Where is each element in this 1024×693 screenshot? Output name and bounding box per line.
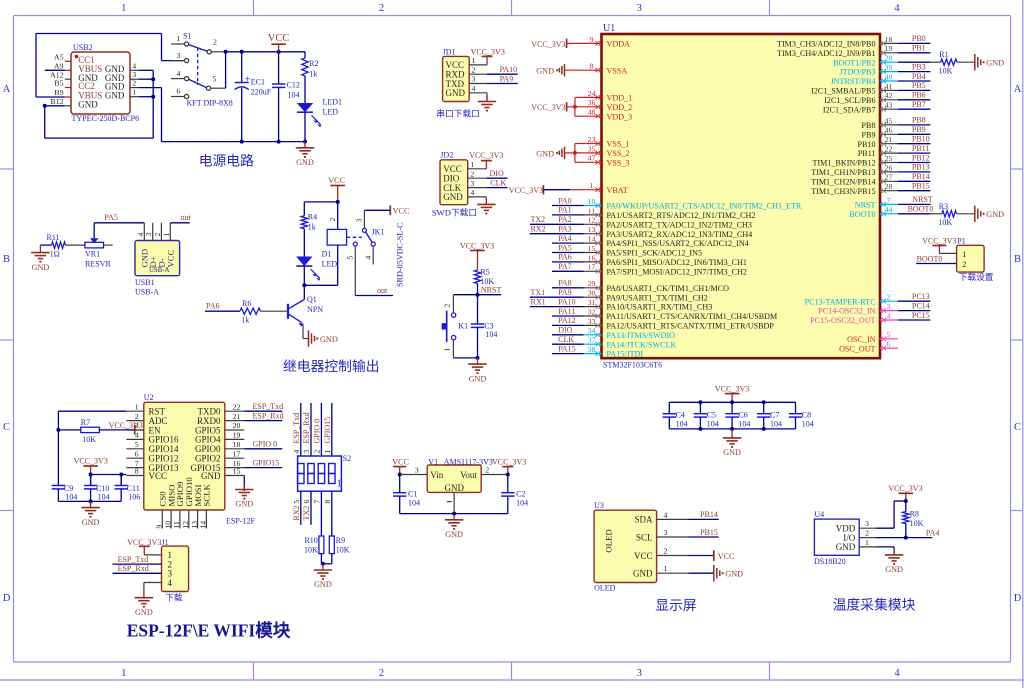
svg-text:LED: LED xyxy=(322,260,338,269)
svg-text:23: 23 xyxy=(588,135,596,144)
svg-text:C10: C10 xyxy=(96,484,109,493)
svg-text:GND: GND xyxy=(135,608,153,617)
svg-text:A: A xyxy=(1014,84,1022,95)
svg-text:VCC_3V3: VCC_3V3 xyxy=(469,151,503,160)
svg-text:15: 15 xyxy=(588,244,596,253)
svg-text:BOOT0: BOOT0 xyxy=(849,210,875,219)
svg-text:GND: GND xyxy=(725,570,743,579)
svg-text:27: 27 xyxy=(885,173,893,182)
svg-text:LED: LED xyxy=(323,108,339,117)
svg-text:TX2: TX2 xyxy=(531,215,546,224)
svg-text:37: 37 xyxy=(588,336,596,345)
svg-text:B: B xyxy=(3,254,10,265)
svg-text:Vin: Vin xyxy=(430,470,443,480)
svg-text:GND: GND xyxy=(314,580,332,589)
svg-text:GND: GND xyxy=(986,59,1004,68)
svg-text:38: 38 xyxy=(588,345,596,354)
svg-text:TIM3_CH3/ADC12_IN8/PB0: TIM3_CH3/ADC12_IN8/PB0 xyxy=(777,40,875,49)
svg-text:R2: R2 xyxy=(309,59,318,68)
svg-text:B5: B5 xyxy=(54,79,63,88)
svg-text:1: 1 xyxy=(443,348,452,352)
svg-text:C: C xyxy=(3,422,10,433)
svg-text:10K: 10K xyxy=(938,218,952,227)
svg-text:4: 4 xyxy=(177,69,181,78)
svg-text:VCC_3V3: VCC_3V3 xyxy=(74,457,108,466)
svg-text:D: D xyxy=(1014,593,1022,604)
svg-text:PA15: PA15 xyxy=(558,344,576,353)
svg-text:PC14-OSC32_IN: PC14-OSC32_IN xyxy=(818,307,875,316)
svg-text:10: 10 xyxy=(163,521,172,529)
svg-text:R11: R11 xyxy=(47,233,60,242)
svg-text:VDD_3: VDD_3 xyxy=(607,112,633,121)
svg-text:1: 1 xyxy=(865,538,869,547)
svg-text:15: 15 xyxy=(233,467,241,476)
svg-text:7: 7 xyxy=(887,196,891,205)
svg-text:GND: GND xyxy=(445,530,463,539)
svg-text:ESP_Txd: ESP_Txd xyxy=(118,555,149,564)
svg-text:VSS_2: VSS_2 xyxy=(607,149,630,158)
svg-text:PB14: PB14 xyxy=(912,172,930,181)
svg-text:3: 3 xyxy=(637,3,642,14)
svg-text:B12: B12 xyxy=(51,97,64,106)
svg-text:47: 47 xyxy=(588,154,596,163)
svg-text:2: 2 xyxy=(132,79,136,88)
svg-text:104: 104 xyxy=(676,420,688,429)
svg-text:USB2: USB2 xyxy=(73,43,93,52)
svg-text:R8: R8 xyxy=(910,510,919,519)
svg-text:2: 2 xyxy=(135,412,139,421)
svg-text:PA8/USART1_CK/TIM1_CH1/MCO: PA8/USART1_CK/TIM1_CH1/MCO xyxy=(607,284,730,293)
svg-text:SCLK: SCLK xyxy=(202,483,212,506)
svg-text:TIM1_CH2N/PB14: TIM1_CH2N/PB14 xyxy=(811,177,875,186)
svg-text:VCC: VCC xyxy=(328,176,345,185)
svg-text:DIO: DIO xyxy=(558,326,572,335)
svg-text:PB0: PB0 xyxy=(912,34,926,43)
svg-text:2: 2 xyxy=(485,466,489,475)
svg-text:39: 39 xyxy=(885,63,893,72)
svg-text:4: 4 xyxy=(472,84,476,93)
svg-text:ESP_Rxd: ESP_Rxd xyxy=(302,412,311,443)
svg-text:6: 6 xyxy=(887,340,891,349)
svg-text:PA7/SPI1_MOSI/ADC12_IN7/TIM3_C: PA7/SPI1_MOSI/ADC12_IN7/TIM3_CH2 xyxy=(607,267,747,276)
svg-text:PA8: PA8 xyxy=(558,279,572,288)
svg-text:1k: 1k xyxy=(308,223,316,232)
svg-text:13: 13 xyxy=(588,225,596,234)
svg-text:34: 34 xyxy=(588,326,596,335)
svg-text:电源电路: 电源电路 xyxy=(199,154,254,169)
svg-text:PB4: PB4 xyxy=(912,72,926,81)
svg-text:PA3: PA3 xyxy=(558,225,572,234)
svg-text:D: D xyxy=(3,593,11,604)
svg-text:VDD_2: VDD_2 xyxy=(607,103,633,112)
svg-text:OLED: OLED xyxy=(594,584,616,593)
svg-text:6: 6 xyxy=(177,87,181,96)
svg-text:PA4: PA4 xyxy=(926,528,940,537)
svg-text:1: 1 xyxy=(323,450,332,454)
svg-text:9: 9 xyxy=(155,525,164,529)
svg-text:B: B xyxy=(1014,254,1021,265)
svg-text:TIM1_CH1N/PB13: TIM1_CH1N/PB13 xyxy=(811,168,875,177)
svg-text:S1: S1 xyxy=(183,32,191,41)
svg-text:PA9: PA9 xyxy=(558,288,572,297)
svg-text:GND: GND xyxy=(82,518,100,527)
svg-text:2: 2 xyxy=(312,450,321,454)
svg-text:C1: C1 xyxy=(408,490,417,499)
svg-text:PA0: PA0 xyxy=(558,196,572,205)
svg-text:PA3/USART2_RX/ADC12_IN3/TIM2_C: PA3/USART2_RX/ADC12_IN3/TIM2_CH4 xyxy=(607,230,753,239)
svg-text:14: 14 xyxy=(199,521,208,529)
svg-text:20: 20 xyxy=(885,54,893,63)
svg-text:2: 2 xyxy=(379,3,384,14)
svg-text:GND: GND xyxy=(235,500,253,509)
svg-text:C12: C12 xyxy=(287,81,300,90)
svg-text:VCC: VCC xyxy=(393,207,410,216)
svg-text:显示屏: 显示屏 xyxy=(655,598,697,613)
svg-text:USB1: USB1 xyxy=(135,278,155,287)
svg-text:4: 4 xyxy=(132,61,136,70)
svg-text:5: 5 xyxy=(135,440,139,449)
svg-text:PA10: PA10 xyxy=(500,65,517,74)
svg-text:48: 48 xyxy=(588,108,596,117)
svg-text:GND: GND xyxy=(445,483,465,493)
svg-text:2: 2 xyxy=(887,293,891,302)
svg-text:10: 10 xyxy=(588,197,596,206)
svg-text:Q1: Q1 xyxy=(307,295,317,304)
svg-text:ESP-12F\E WIFI模块: ESP-12F\E WIFI模块 xyxy=(127,621,291,641)
svg-text:22: 22 xyxy=(885,145,893,154)
svg-text:20: 20 xyxy=(233,421,241,430)
svg-text:VCC_3V3: VCC_3V3 xyxy=(531,40,565,49)
svg-text:1: 1 xyxy=(337,479,342,490)
svg-text:PA2: PA2 xyxy=(558,215,572,224)
svg-text:RX1: RX1 xyxy=(531,297,546,306)
svg-text:PB8: PB8 xyxy=(912,116,926,125)
svg-text:SWD下载口: SWD下载口 xyxy=(432,207,477,218)
svg-text:PA9/USART1_TX/TIM1_CH2: PA9/USART1_TX/TIM1_CH2 xyxy=(607,293,708,302)
svg-text:32: 32 xyxy=(588,307,596,316)
svg-text:1k: 1k xyxy=(309,70,317,79)
svg-text:BOOT0: BOOT0 xyxy=(908,205,934,214)
svg-text:46: 46 xyxy=(885,126,893,135)
svg-text:PA6: PA6 xyxy=(206,302,220,311)
svg-text:GND: GND xyxy=(536,67,554,76)
svg-text:PB7: PB7 xyxy=(912,100,926,109)
svg-text:BOOT1/PB2: BOOT1/PB2 xyxy=(833,58,875,67)
svg-text:GND: GND xyxy=(836,542,856,552)
svg-text:SRD-05VDC-SL-C: SRD-05VDC-SL-C xyxy=(396,222,405,287)
svg-text:12: 12 xyxy=(588,216,596,225)
svg-text:NPN: NPN xyxy=(307,305,323,314)
svg-text:PA6: PA6 xyxy=(558,253,572,262)
svg-text:1: 1 xyxy=(121,3,126,14)
svg-text:PC15: PC15 xyxy=(912,311,930,320)
svg-text:C11: C11 xyxy=(127,484,140,493)
svg-text:OSC_OUT: OSC_OUT xyxy=(839,344,875,353)
svg-text:1: 1 xyxy=(962,249,966,259)
svg-text:1: 1 xyxy=(472,56,476,65)
svg-text:14: 14 xyxy=(588,235,596,244)
svg-text:SDA: SDA xyxy=(634,515,653,525)
svg-text:Vout: Vout xyxy=(460,470,477,480)
svg-text:VCC_3V3: VCC_3V3 xyxy=(492,458,526,467)
svg-text:R7: R7 xyxy=(81,418,90,427)
svg-text:PB13: PB13 xyxy=(912,163,930,172)
svg-text:PA5/SPI1_SCK/ADC12_IN5: PA5/SPI1_SCK/ADC12_IN5 xyxy=(607,249,703,258)
svg-text:VCC: VCC xyxy=(268,33,290,44)
svg-text:1: 1 xyxy=(135,402,139,411)
svg-text:PA11/USART1_CTS/CANRX/TIM1_CH4: PA11/USART1_CTS/CANRX/TIM1_CH4/USBDM xyxy=(607,312,778,321)
svg-text:ESP_Rxd: ESP_Rxd xyxy=(253,411,284,420)
svg-text:22: 22 xyxy=(233,402,241,411)
svg-text:GPIO 0: GPIO 0 xyxy=(312,419,321,444)
svg-text:104: 104 xyxy=(802,420,814,429)
svg-text:24: 24 xyxy=(588,89,596,98)
svg-text:2: 2 xyxy=(962,259,966,269)
svg-text:P1: P1 xyxy=(957,237,965,246)
svg-text:VCC_3V3: VCC_3V3 xyxy=(888,484,922,493)
svg-text:VCC_3V3: VCC_3V3 xyxy=(460,241,494,250)
svg-text:43: 43 xyxy=(885,101,893,110)
svg-text:1: 1 xyxy=(664,564,668,573)
svg-text:下载: 下载 xyxy=(165,591,183,602)
svg-text:K1: K1 xyxy=(458,322,468,331)
svg-text:VDD_1: VDD_1 xyxy=(607,94,633,103)
svg-text:A5: A5 xyxy=(54,52,64,61)
svg-text:PA10: PA10 xyxy=(558,297,576,306)
svg-text:PA1/USART2_RTS/ADC12_IN1/TIM2_: PA1/USART2_RTS/ADC12_IN1/TIM2_CH2 xyxy=(607,211,756,220)
svg-text:STM32F103C6T6: STM32F103C6T6 xyxy=(603,360,662,369)
svg-text:VCC: VCC xyxy=(149,471,168,481)
svg-text:VBAT: VBAT xyxy=(607,186,628,195)
svg-text:SCL: SCL xyxy=(636,532,653,542)
svg-text:17: 17 xyxy=(588,263,596,272)
svg-text:RX2: RX2 xyxy=(531,225,546,234)
svg-text:B9: B9 xyxy=(54,88,63,97)
svg-text:GND: GND xyxy=(443,192,463,202)
svg-text:8: 8 xyxy=(590,62,594,71)
svg-text:PA15/JTDI: PA15/JTDI xyxy=(607,350,644,359)
svg-text:U2: U2 xyxy=(144,393,154,402)
svg-text:R6: R6 xyxy=(242,299,251,308)
svg-text:R5: R5 xyxy=(480,268,489,277)
svg-text:VCC_3V3: VCC_3V3 xyxy=(109,421,143,430)
svg-text:PB1: PB1 xyxy=(912,44,926,53)
svg-text:PA12: PA12 xyxy=(558,316,576,325)
svg-text:11: 11 xyxy=(172,521,181,529)
svg-text:2: 2 xyxy=(328,218,337,222)
svg-text:4: 4 xyxy=(664,510,668,519)
svg-text:RESVR: RESVR xyxy=(85,260,111,269)
svg-text:104: 104 xyxy=(408,498,420,507)
svg-text:A9: A9 xyxy=(54,62,64,71)
svg-text:45: 45 xyxy=(885,116,893,125)
svg-text:I2C1_SCL/PB6: I2C1_SCL/PB6 xyxy=(824,96,875,105)
svg-text:PB8: PB8 xyxy=(862,121,876,130)
svg-text:PC13-TAMPER-RTC: PC13-TAMPER-RTC xyxy=(805,297,876,306)
svg-text:CC2: CC2 xyxy=(78,81,95,91)
svg-text:C6: C6 xyxy=(738,411,747,420)
svg-text:PA5: PA5 xyxy=(104,213,118,222)
svg-text:R4: R4 xyxy=(308,213,317,222)
svg-text:21: 21 xyxy=(233,412,241,421)
svg-text:18: 18 xyxy=(233,440,241,449)
svg-text:PA5: PA5 xyxy=(558,243,572,252)
svg-text:NRST: NRST xyxy=(855,201,876,210)
svg-text:ESP-12F: ESP-12F xyxy=(226,516,255,525)
svg-text:out: out xyxy=(377,286,388,295)
svg-text:PB10: PB10 xyxy=(912,135,930,144)
svg-text:10K: 10K xyxy=(304,545,318,554)
svg-text:1: 1 xyxy=(132,88,136,97)
svg-text:5: 5 xyxy=(292,500,301,504)
svg-text:19: 19 xyxy=(885,44,893,53)
svg-text:JD1: JD1 xyxy=(443,47,456,56)
svg-text:104: 104 xyxy=(707,420,719,429)
svg-text:41: 41 xyxy=(885,82,893,91)
svg-text:+: + xyxy=(245,74,251,85)
svg-text:18: 18 xyxy=(885,35,893,44)
svg-text:GND: GND xyxy=(986,210,1004,219)
svg-text:PA10/USART1_RX/TIM1_CH3: PA10/USART1_RX/TIM1_CH3 xyxy=(607,303,713,312)
svg-text:PA13/JTMS/SWDIO: PA13/JTMS/SWDIO xyxy=(607,331,676,340)
svg-text:33: 33 xyxy=(588,317,596,326)
svg-text:PB15: PB15 xyxy=(912,182,930,191)
svg-text:6: 6 xyxy=(135,449,139,458)
svg-text:PA2/USART2_TX/ADC12_IN2/TIM2_C: PA2/USART2_TX/ADC12_IN2/TIM2_CH3 xyxy=(607,220,752,229)
svg-text:GND: GND xyxy=(469,374,487,383)
svg-text:NRST: NRST xyxy=(481,285,502,294)
svg-text:104: 104 xyxy=(485,330,497,339)
svg-text:2: 2 xyxy=(470,169,474,178)
svg-text:RX2: RX2 xyxy=(292,505,301,520)
svg-text:GND: GND xyxy=(201,471,221,481)
svg-text:ESP_Txd: ESP_Txd xyxy=(253,402,284,411)
svg-text:1: 1 xyxy=(162,233,171,237)
svg-text:S2: S2 xyxy=(343,454,351,463)
svg-text:PA12/USART1_RTS/CANTX/TIM1_ETR: PA12/USART1_RTS/CANTX/TIM1_ETR/USBDP xyxy=(607,322,775,331)
svg-text:PC14: PC14 xyxy=(912,301,930,310)
svg-text:104: 104 xyxy=(65,493,77,502)
svg-text:PB11: PB11 xyxy=(858,149,876,158)
svg-text:TIM1_BKIN/PB12: TIM1_BKIN/PB12 xyxy=(813,159,876,168)
svg-text:4: 4 xyxy=(470,188,474,197)
svg-text:19: 19 xyxy=(233,431,241,440)
svg-text:PB15: PB15 xyxy=(700,528,718,537)
svg-text:GND: GND xyxy=(105,90,125,100)
svg-text:I2C1_SDA/PB7: I2C1_SDA/PB7 xyxy=(823,105,876,114)
svg-text:C: C xyxy=(1014,422,1021,433)
svg-text:GND: GND xyxy=(320,335,338,344)
svg-text:44: 44 xyxy=(885,205,893,214)
svg-text:PB6: PB6 xyxy=(912,91,926,100)
svg-text:GPIO 0: GPIO 0 xyxy=(253,440,278,449)
svg-text:R9: R9 xyxy=(336,536,345,545)
svg-text:8: 8 xyxy=(135,467,139,476)
svg-text:3: 3 xyxy=(302,450,311,454)
svg-text:VCC: VCC xyxy=(166,250,176,268)
svg-text:EC1: EC1 xyxy=(251,78,265,87)
svg-text:26: 26 xyxy=(885,163,893,172)
svg-text:VCC_3V3: VCC_3V3 xyxy=(922,237,956,246)
svg-text:BOOT0: BOOT0 xyxy=(917,254,943,263)
svg-text:35: 35 xyxy=(588,144,596,153)
svg-text:C9: C9 xyxy=(64,484,73,493)
svg-text:2: 2 xyxy=(443,304,452,308)
svg-text:PA4/SPI1_NSS/USART2_CK/ADC12_I: PA4/SPI1_NSS/USART2_CK/ADC12_IN4 xyxy=(607,239,749,248)
svg-text:TIM3_CH4/ADC12_IN9/PB1: TIM3_CH4/ADC12_IN9/PB1 xyxy=(777,49,875,58)
svg-text:8: 8 xyxy=(323,500,332,504)
svg-text:3: 3 xyxy=(472,75,476,84)
svg-text:2: 2 xyxy=(664,547,668,556)
svg-text:PA7: PA7 xyxy=(558,262,572,271)
svg-text:21: 21 xyxy=(885,135,893,144)
svg-text:PB9: PB9 xyxy=(862,130,876,139)
svg-text:GPIO15: GPIO15 xyxy=(323,417,332,444)
svg-text:V1: V1 xyxy=(428,458,438,467)
svg-text:1: 1 xyxy=(121,668,126,679)
svg-text:3: 3 xyxy=(637,668,642,679)
svg-text:TX2: TX2 xyxy=(302,506,311,521)
svg-text:U1: U1 xyxy=(603,23,615,34)
svg-text:3: 3 xyxy=(415,466,419,475)
svg-text:ESP_Txd: ESP_Txd xyxy=(292,413,301,444)
svg-text:16: 16 xyxy=(588,253,596,262)
svg-text:PA11: PA11 xyxy=(558,307,575,316)
svg-text:2: 2 xyxy=(865,529,869,538)
svg-text:JK1: JK1 xyxy=(372,227,385,236)
svg-text:温度采集模块: 温度采集模块 xyxy=(833,598,916,613)
svg-text:2: 2 xyxy=(153,233,162,237)
svg-text:6: 6 xyxy=(302,500,311,504)
svg-text:40: 40 xyxy=(885,72,893,81)
svg-text:USB-A: USB-A xyxy=(149,267,169,274)
svg-text:TIM1_CH3N/PB15: TIM1_CH3N/PB15 xyxy=(811,187,875,196)
svg-text:4: 4 xyxy=(887,311,891,320)
svg-text:R10: R10 xyxy=(304,536,317,545)
svg-text:I2C1_SMBAL/PB5: I2C1_SMBAL/PB5 xyxy=(811,87,875,96)
svg-text:GPIO15: GPIO15 xyxy=(253,458,280,467)
svg-text:1Ω: 1Ω xyxy=(50,250,60,259)
svg-text:out: out xyxy=(181,213,192,222)
svg-text:串口下载口: 串口下载口 xyxy=(436,108,479,119)
svg-text:PA14/JTCK/SWCLK: PA14/JTCK/SWCLK xyxy=(607,340,677,349)
svg-text:4: 4 xyxy=(894,668,900,679)
svg-text:GND: GND xyxy=(446,88,466,98)
svg-text:PB12: PB12 xyxy=(912,153,930,162)
svg-text:5: 5 xyxy=(213,75,217,84)
svg-text:CLK: CLK xyxy=(490,178,506,187)
svg-text:104: 104 xyxy=(770,420,782,429)
svg-text:VCC_3V3: VCC_3V3 xyxy=(471,48,505,57)
svg-text:VCC: VCC xyxy=(634,551,653,561)
svg-text:3: 3 xyxy=(865,519,869,528)
svg-text:PB9: PB9 xyxy=(912,125,926,134)
svg-text:9: 9 xyxy=(590,35,594,44)
svg-text:30: 30 xyxy=(588,289,596,298)
svg-text:104: 104 xyxy=(288,91,300,100)
svg-text:1: 1 xyxy=(590,181,594,190)
svg-text:VSSA: VSSA xyxy=(607,66,628,75)
svg-text:10K: 10K xyxy=(910,519,924,528)
svg-text:GND: GND xyxy=(536,149,554,158)
svg-text:4: 4 xyxy=(363,256,372,260)
svg-text:GND: GND xyxy=(633,569,653,579)
svg-text:PB3: PB3 xyxy=(912,62,926,71)
svg-text:DIO: DIO xyxy=(490,169,504,178)
svg-text:PB10: PB10 xyxy=(858,140,876,149)
svg-text:KFT DIP-8X8: KFT DIP-8X8 xyxy=(187,99,233,108)
svg-text:PA6/SPI1_MISO/ADC12_IN6/TIM3_C: PA6/SPI1_MISO/ADC12_IN6/TIM3_CH1 xyxy=(607,258,747,267)
